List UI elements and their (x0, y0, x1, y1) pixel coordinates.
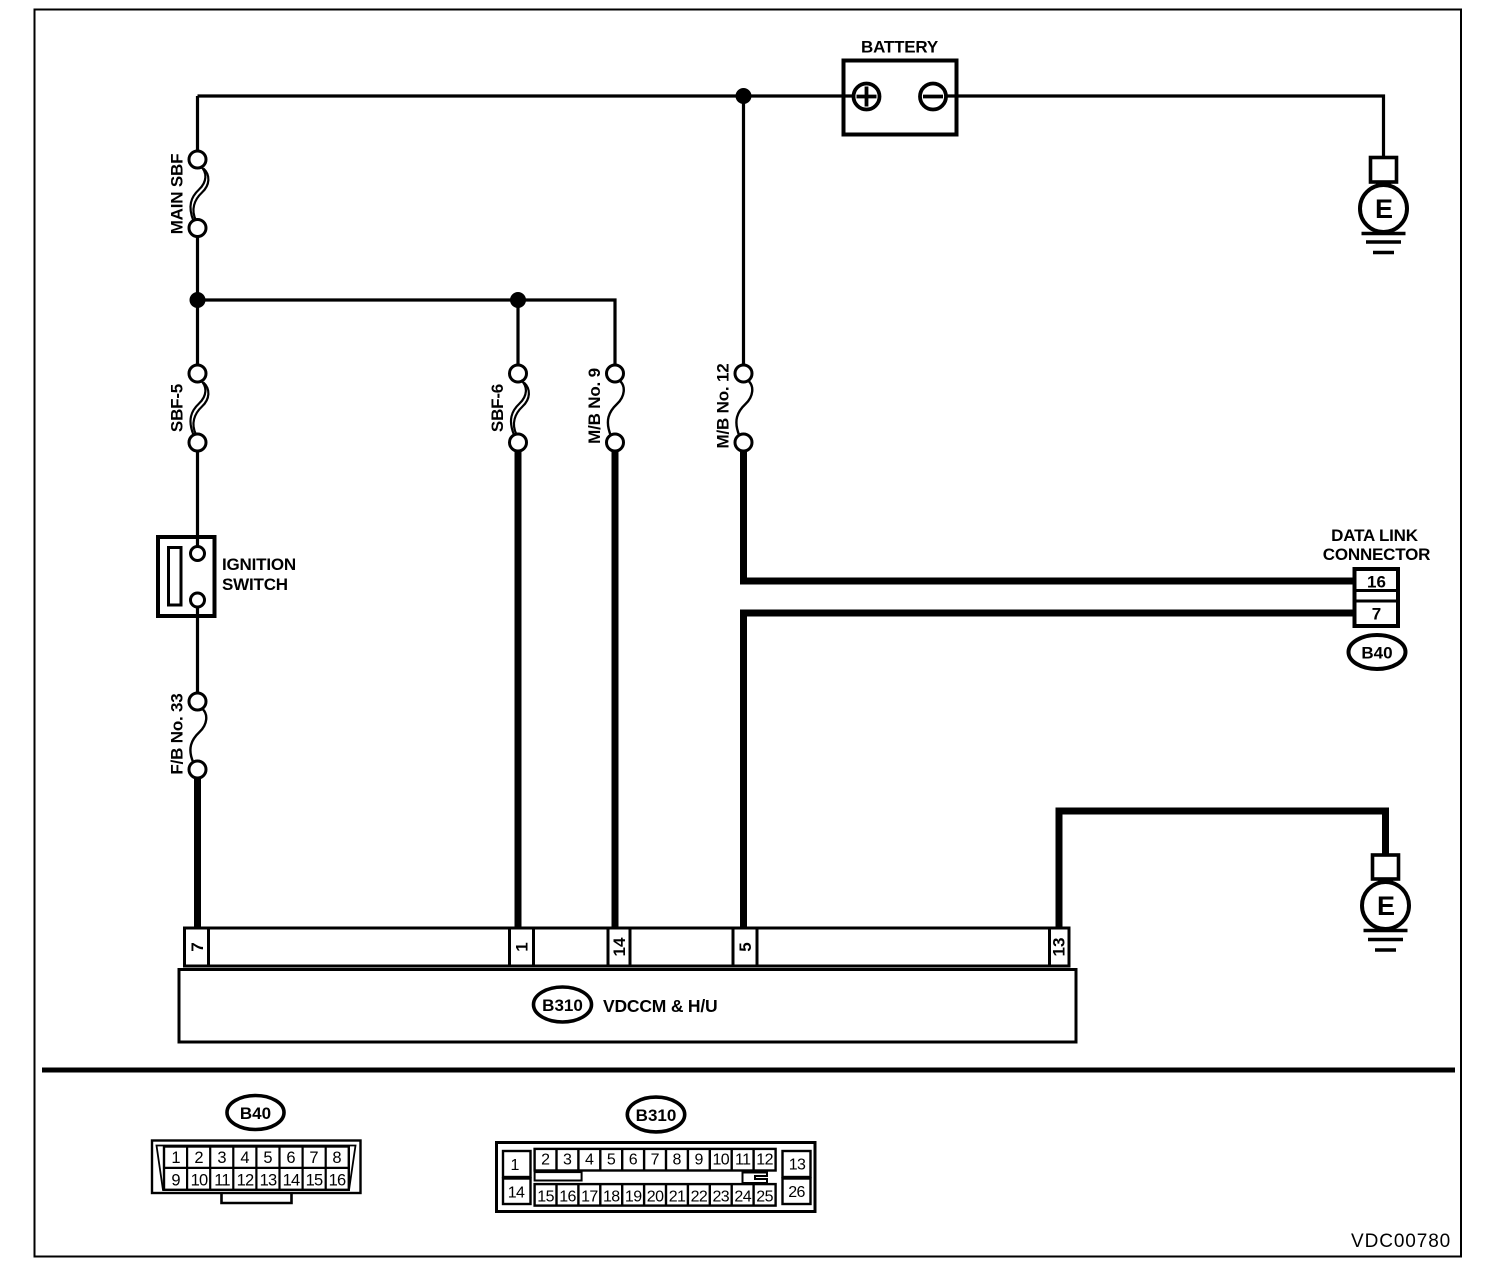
battery (844, 38, 957, 135)
fuse M/B No. 12 (714, 364, 753, 451)
junction dot SBF-5 tap (190, 292, 206, 308)
svg-text:13: 13 (789, 1157, 806, 1174)
wire accessory bus (198, 300, 616, 366)
junction dot at battery/MB12 tap (736, 88, 752, 104)
wire F/B No.33 to VDCCM pin 7 (thick) (194, 778, 201, 930)
svg-text:B310: B310 (542, 996, 583, 1015)
svg-text:1: 1 (171, 1149, 180, 1167)
svg-text:21: 21 (669, 1188, 686, 1205)
svg-text:BATTERY: BATTERY (861, 38, 939, 57)
svg-text:16: 16 (1367, 573, 1386, 592)
svg-text:7: 7 (188, 942, 207, 951)
pin 14 cell (503, 1179, 531, 1205)
svg-text:CONNECTOR: CONNECTOR (1323, 545, 1430, 564)
svg-text:IGNITION: IGNITION (222, 555, 296, 574)
pins 15-25 row (535, 1184, 776, 1206)
svg-text:16: 16 (559, 1188, 576, 1205)
svg-text:2: 2 (541, 1152, 550, 1169)
svg-text:9: 9 (171, 1171, 180, 1189)
svg-text:17: 17 (581, 1188, 598, 1205)
separator line (42, 1068, 1455, 1073)
wire MAIN SBF to bus junction (196, 237, 199, 301)
junction dot SBF-6 tap (510, 292, 526, 308)
svg-text:10: 10 (712, 1152, 729, 1169)
svg-text:16: 16 (329, 1171, 346, 1189)
wire battery feed left (node B+ to MAIN SBF top) (198, 94, 856, 97)
svg-text:B40: B40 (240, 1104, 271, 1123)
svg-text:5: 5 (736, 942, 755, 951)
connector B310 pinout (497, 1143, 816, 1212)
connector B40 pinout (152, 1141, 361, 1204)
svg-text:E: E (1375, 194, 1393, 224)
svg-text:4: 4 (240, 1149, 249, 1167)
svg-text:7: 7 (651, 1152, 660, 1169)
svg-text:5: 5 (607, 1152, 616, 1169)
svg-text:14: 14 (610, 937, 629, 956)
svg-text:MAIN SBF: MAIN SBF (168, 154, 187, 235)
svg-text:1: 1 (513, 942, 532, 951)
svg-text:14: 14 (508, 1185, 525, 1202)
svg-text:8: 8 (673, 1152, 682, 1169)
svg-text:10: 10 (191, 1171, 208, 1189)
wire DLC pin 7 to VDCCM pin 5 (thick) (744, 613, 1355, 929)
svg-text:19: 19 (625, 1188, 642, 1205)
svg-text:DATA LINK: DATA LINK (1331, 526, 1419, 545)
svg-text:B40: B40 (1361, 644, 1392, 663)
connector label B310 (pinout) (627, 1097, 684, 1132)
svg-text:6: 6 (629, 1152, 638, 1169)
wire M/B No.9 to VDCCM pin 14 (thick) (612, 451, 619, 930)
svg-text:13: 13 (1050, 938, 1069, 957)
svg-text:11: 11 (214, 1171, 230, 1189)
connector label B40 (pinout) (227, 1096, 284, 1130)
svg-text:M/B No. 12: M/B No. 12 (714, 364, 733, 449)
svg-text:25: 25 (756, 1188, 773, 1205)
key slot left (535, 1172, 582, 1180)
ignition switch (158, 537, 296, 616)
svg-text:SBF-6: SBF-6 (488, 384, 507, 432)
svg-text:26: 26 (788, 1184, 805, 1201)
fuse MAIN SBF (168, 151, 209, 237)
connector label B40 (diagram) (1349, 635, 1406, 669)
svg-text:6: 6 (286, 1149, 295, 1167)
svg-text:15: 15 (306, 1171, 323, 1189)
svg-text:12: 12 (756, 1152, 773, 1169)
svg-text:9: 9 (694, 1152, 703, 1169)
wire bus down to SBF-5 (196, 300, 199, 366)
ground E (battery negative) (1360, 158, 1407, 253)
svg-text:SWITCH: SWITCH (222, 575, 288, 594)
svg-text:22: 22 (691, 1188, 708, 1205)
wire bus down to SBF-6 (516, 300, 519, 366)
svg-text:8: 8 (332, 1149, 341, 1167)
VDCCM pin strip (185, 928, 1070, 966)
svg-text:VDC00780: VDC00780 (1351, 1231, 1451, 1252)
battery plus terminal (854, 84, 880, 110)
wire VDCCM pin 13 to ground (thick) (1059, 811, 1386, 929)
battery minus terminal (920, 84, 946, 110)
svg-text:SBF-5: SBF-5 (168, 384, 187, 432)
svg-text:23: 23 (712, 1188, 729, 1205)
svg-text:B310: B310 (636, 1106, 677, 1125)
svg-text:5: 5 (263, 1149, 272, 1167)
wire M/B No.12 to DLC pin 16 (thick) (744, 451, 1355, 582)
wire top feed down to MAIN SBF (196, 96, 199, 152)
pin 1 cell (503, 1151, 531, 1177)
wire SBF-6 to VDCCM pin 1 (thick) (515, 451, 522, 930)
fuse M/B No. 9 (585, 365, 624, 451)
svg-text:3: 3 (563, 1152, 572, 1169)
svg-text:VDCCM & H/U: VDCCM & H/U (603, 996, 717, 1016)
svg-text:18: 18 (603, 1188, 620, 1205)
wire SBF-5 to ignition switch (196, 451, 199, 547)
wire ignition switch to F/B No.33 (196, 607, 199, 694)
svg-text:13: 13 (260, 1171, 277, 1189)
wire battery minus to ground (945, 96, 1384, 158)
svg-text:M/B No. 9: M/B No. 9 (585, 368, 604, 444)
svg-text:11: 11 (735, 1152, 751, 1169)
svg-text:24: 24 (734, 1188, 751, 1205)
svg-text:7: 7 (309, 1149, 318, 1167)
fuse F/B No. 33 (168, 693, 207, 778)
pin 13 cell (783, 1151, 811, 1177)
svg-text:20: 20 (647, 1188, 664, 1205)
wire MB12 drop from battery tap (742, 96, 745, 366)
svg-text:4: 4 (585, 1152, 594, 1169)
svg-text:2: 2 (194, 1149, 203, 1167)
ground E (VDCCM pin 13) (1362, 855, 1409, 950)
svg-text:F/B No. 33: F/B No. 33 (168, 693, 187, 774)
svg-text:E: E (1377, 891, 1395, 921)
svg-text:7: 7 (1372, 605, 1381, 624)
svg-text:14: 14 (283, 1171, 300, 1189)
svg-text:3: 3 (217, 1149, 226, 1167)
fuse SBF-5 (168, 365, 209, 451)
VDCCM & H/U unit box (179, 970, 1076, 1043)
fuse SBF-6 (488, 365, 529, 451)
svg-text:1: 1 (511, 1157, 520, 1174)
svg-text:15: 15 (537, 1188, 554, 1205)
key slot right (743, 1173, 768, 1184)
data link connector (1323, 526, 1430, 626)
pins 2-12 row (535, 1149, 776, 1171)
pin 26 cell (783, 1179, 811, 1205)
svg-text:12: 12 (237, 1171, 254, 1189)
